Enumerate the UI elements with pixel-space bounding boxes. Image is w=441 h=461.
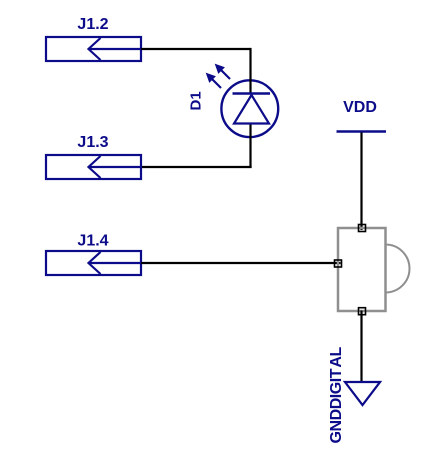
- LED D1 circle: [221, 80, 278, 137]
- connector J1.2: [46, 37, 141, 61]
- LED arrow 2: [207, 74, 222, 89]
- switch S1 actuator arc: [386, 245, 410, 293]
- pin left: [335, 260, 342, 267]
- switch S1 body: [338, 228, 386, 311]
- LED D1 cathode bar: [233, 92, 271, 94]
- wire J1.4 to switch: [141, 262, 341, 264]
- wire J1.3 horizontal: [141, 166, 252, 168]
- connector J1.4: [46, 251, 141, 275]
- LED arrow 1: [216, 65, 231, 80]
- wire vertical above LED: [249, 48, 251, 94]
- wire J1.2 horizontal: [141, 48, 251, 50]
- power port VDD bar: [337, 130, 387, 133]
- wire switch to ground: [360, 311, 362, 383]
- svg-text:J1.3: J1.3: [77, 134, 108, 151]
- svg-text:GNDDIGITAL: GNDDIGITAL: [328, 346, 345, 443]
- svg-text:D1: D1: [188, 91, 205, 110]
- svg-text:VDD: VDD: [343, 99, 377, 116]
- connector J1.3: [46, 155, 141, 179]
- pin top: [359, 225, 366, 232]
- wire VDD to switch: [360, 133, 362, 231]
- ground symbol GNDDIGITAL: [345, 382, 380, 405]
- svg-text:J1.4: J1.4: [77, 233, 108, 250]
- wire vertical below LED: [249, 124, 251, 169]
- svg-text:J1.2: J1.2: [77, 16, 108, 33]
- pin bottom: [359, 308, 366, 315]
- LED D1 triangle: [234, 95, 269, 124]
